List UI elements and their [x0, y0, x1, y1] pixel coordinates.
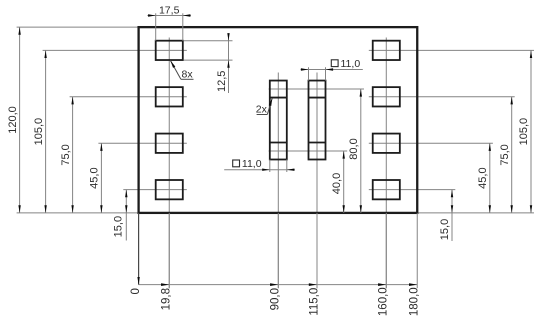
svg-text:12,5: 12,5: [216, 71, 228, 92]
row 105 centerline left segment: [43, 49, 187, 51]
hole 17.5x12.5 right column row 45: [373, 134, 400, 153]
dimension 45,0 left: [89, 143, 103, 213]
svg-text:80,0: 80,0: [348, 138, 360, 159]
right hole column vertical centerline: [385, 38, 387, 289]
svg-text:15,0: 15,0: [112, 216, 124, 237]
svg-text:17,5: 17,5: [159, 5, 180, 17]
svg-text:0: 0: [130, 288, 142, 294]
slot 1 bottom square inner edge: [270, 141, 287, 143]
dimension square 11,0 bottom extension lines: [270, 159, 287, 172]
svg-text:115,0: 115,0: [308, 288, 320, 316]
plate top edge extension left: [17, 26, 139, 28]
svg-text:19,8: 19,8: [161, 288, 173, 310]
dimension 80,0 middle: [348, 89, 362, 213]
dimension 105,0 left: [33, 50, 47, 213]
slot square row 40 centerline: [269, 150, 348, 152]
ordinate arrow 180,0: [409, 283, 417, 286]
dimension square 11,0 bottom line and arrows: [224, 169, 295, 171]
dimension 17,5 extension lines: [156, 13, 183, 40]
hole 17.5x12.5 right column row 15: [373, 180, 400, 199]
svg-text:105,0: 105,0: [33, 118, 45, 146]
dimension text square 11,0 top: [331, 58, 360, 70]
row 15 centerline left segment: [123, 189, 187, 191]
hole 17.5x12.5 right column row 105: [373, 41, 400, 60]
dimension text square 11,0 bottom: [233, 158, 262, 170]
dimension 40,0 middle: [331, 151, 345, 213]
slot 1 vertical centerline: [277, 73, 279, 289]
ordinate arrow 90,0: [270, 283, 278, 286]
svg-text:105,0: 105,0: [518, 118, 530, 146]
svg-text:120,0: 120,0: [7, 106, 19, 134]
svg-text:180,0: 180,0: [409, 287, 421, 316]
ordinate extension line 115,0: [316, 213, 318, 288]
dimension 105,0 right: [518, 50, 532, 213]
dimension 15,0 right: [439, 190, 453, 241]
dimension square 11,0 top extension lines: [309, 67, 326, 80]
slot 1 top square inner edge: [270, 97, 287, 99]
dimension 12,5 line and arrows: [227, 33, 229, 93]
slot 1 outline 11 wide: [270, 81, 287, 160]
svg-text:15,0: 15,0: [439, 219, 451, 240]
svg-text:160,0: 160,0: [378, 287, 390, 316]
plate bottom edge extension right: [417, 212, 534, 214]
slot 2 bottom square inner edge: [309, 141, 326, 143]
hole 17.5x12.5 left column row 105: [156, 41, 183, 60]
hole 17.5x12.5 left column row 45: [156, 134, 183, 153]
left hole column vertical centerline: [168, 38, 170, 289]
row 45 centerline left segment: [98, 142, 186, 144]
dimension 12,5 extension lines: [184, 41, 233, 60]
plate bottom edge extension left: [17, 212, 139, 214]
ordinate extension line 90,0: [277, 213, 279, 288]
ordinate extension line 180,0: [416, 213, 418, 288]
hole 17.5x12.5 right column row 75: [373, 87, 400, 106]
dimension 75,0 left: [60, 97, 74, 213]
plate outline: [139, 27, 418, 213]
ordinate baseline: [139, 284, 418, 286]
svg-text:11,0: 11,0: [341, 58, 361, 70]
dimension square 11,0 top line and arrows: [301, 68, 363, 70]
svg-text:75,0: 75,0: [60, 144, 72, 165]
slot square row 80 centerline: [269, 88, 364, 90]
dimension 75,0 right: [499, 97, 513, 213]
ordinate extension line 160,0: [385, 213, 387, 288]
ordinate 0 line and arrow: [137, 213, 139, 285]
slot 2 outline 11 wide: [309, 81, 326, 160]
svg-text:90,0: 90,0: [270, 288, 282, 310]
leader 2x: [257, 98, 273, 115]
dimension 17,5 line and arrows: [147, 14, 191, 16]
dimension 120,0 left: [7, 27, 21, 213]
row 75 centerline right segment: [369, 96, 515, 98]
svg-text:40,0: 40,0: [331, 173, 343, 194]
ordinate arrow 19,8: [161, 283, 169, 286]
hole 17.5x12.5 left column row 15: [156, 180, 183, 199]
svg-text:8x: 8x: [182, 69, 194, 81]
dimension 45,0 right: [477, 143, 491, 213]
ordinate arrow 160,0: [378, 283, 386, 286]
hole 17.5x12.5 left column row 75: [156, 87, 183, 106]
row 75 centerline left segment: [70, 96, 187, 98]
slot 2 vertical centerline: [316, 73, 318, 289]
row 45 centerline right segment: [369, 142, 493, 144]
slot 2 top square inner edge: [309, 97, 326, 99]
row 105 centerline right segment: [369, 49, 534, 51]
row 15 centerline right segment: [369, 189, 456, 191]
svg-text:45,0: 45,0: [477, 167, 489, 188]
leader 8x: [170, 60, 193, 79]
ordinate extension line 19,8: [168, 213, 170, 288]
svg-text:2x: 2x: [256, 103, 268, 115]
dimension 15,0 left: [112, 190, 127, 241]
svg-text:11,0: 11,0: [242, 158, 262, 170]
svg-text:75,0: 75,0: [499, 144, 511, 165]
svg-text:45,0: 45,0: [89, 167, 101, 188]
ordinate arrow 115,0: [309, 283, 317, 286]
